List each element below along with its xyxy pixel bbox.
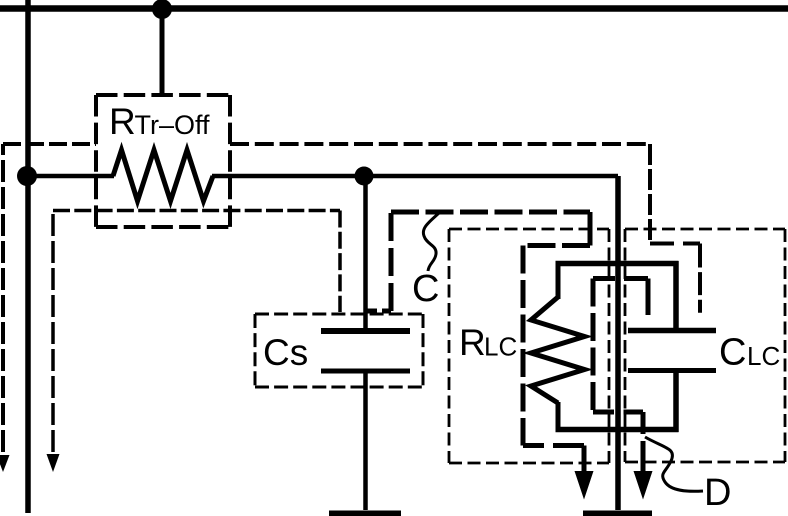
svg-text:LC: LC (484, 332, 517, 362)
svg-text:C: C (412, 268, 439, 310)
svg-text:Cs: Cs (263, 332, 308, 373)
svg-text:R: R (459, 322, 486, 363)
svg-text:D: D (704, 472, 731, 514)
svg-text:LC: LC (747, 341, 780, 371)
svg-text:R: R (109, 101, 136, 142)
svg-text:C: C (719, 332, 746, 374)
svg-text:Tr–Off: Tr–Off (135, 110, 211, 140)
